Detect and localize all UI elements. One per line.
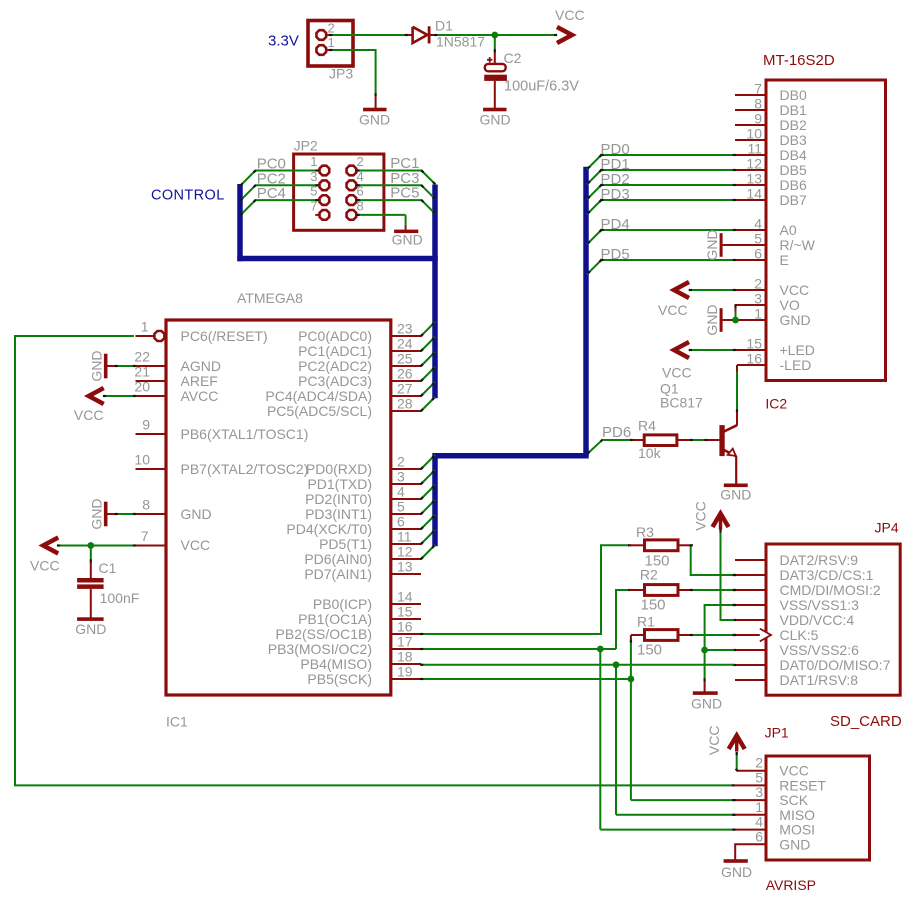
svg-text:9: 9 [142,417,150,433]
svg-text:AREF: AREF [181,373,218,389]
svg-text:E: E [780,252,789,268]
svg-text:PC6(/RESET): PC6(/RESET) [181,328,268,344]
svg-text:1: 1 [310,154,317,169]
svg-text:VDD/VCC:4: VDD/VCC:4 [780,612,855,628]
svg-text:1: 1 [141,319,149,335]
svg-text:VSS/VSS1:3: VSS/VSS1:3 [780,597,860,613]
svg-text:GND: GND [779,836,810,852]
svg-text:GND: GND [359,112,390,128]
svg-text:GND: GND [89,498,105,529]
svg-text:22: 22 [134,349,150,365]
svg-text:VCC: VCC [30,558,60,574]
svg-text:15: 15 [397,604,413,620]
svg-text:GND: GND [704,304,720,335]
svg-text:DB3: DB3 [780,132,807,148]
svg-text:20: 20 [134,379,150,395]
svg-text:PD2(INT0): PD2(INT0) [305,491,372,507]
svg-text:PC4(ADC4/SDA): PC4(ADC4/SDA) [265,388,372,404]
svg-text:4: 4 [755,814,763,830]
svg-text:DB4: DB4 [780,147,807,163]
svg-text:GND: GND [721,864,752,880]
svg-text:DAT3/CD/CS:1: DAT3/CD/CS:1 [780,567,874,583]
svg-text:SD_CARD: SD_CARD [830,713,902,730]
svg-text:PD7(AIN1): PD7(AIN1) [304,566,372,582]
svg-text:PD1(TXD): PD1(TXD) [307,476,372,492]
svg-text:VCC: VCC [779,763,809,779]
svg-text:VCC: VCC [706,726,722,756]
svg-text:8: 8 [142,497,150,513]
svg-text:PC1(ADC1): PC1(ADC1) [298,343,372,359]
svg-text:R3: R3 [636,524,654,540]
svg-text:PD6(AIN0): PD6(AIN0) [304,551,372,567]
svg-text:VCC: VCC [181,537,211,553]
svg-text:GND: GND [89,350,105,381]
svg-text:PC5: PC5 [390,185,419,202]
svg-text:PD4(XCK/T0): PD4(XCK/T0) [286,521,372,537]
svg-text:100nF: 100nF [100,590,140,606]
svg-text:R2: R2 [640,567,658,583]
svg-text:2: 2 [357,154,364,169]
svg-text:VSS/VSS2:6: VSS/VSS2:6 [780,642,860,658]
svg-text:5: 5 [755,769,763,785]
svg-text:VCC: VCC [658,302,688,318]
svg-text:SCK: SCK [779,792,808,808]
svg-text:PD5(T1): PD5(T1) [319,536,372,552]
svg-text:CONTROL: CONTROL [151,188,225,204]
svg-text:25: 25 [397,351,413,367]
svg-text:10: 10 [134,452,150,468]
svg-text:PB3(MOSI/OC2): PB3(MOSI/OC2) [268,641,372,657]
svg-text:19: 19 [397,664,413,680]
svg-text:GND: GND [392,232,423,248]
svg-text:1N5817: 1N5817 [436,34,485,50]
svg-text:VCC: VCC [555,7,585,23]
svg-text:VCC: VCC [693,501,709,531]
svg-text:PD0(RXD): PD0(RXD) [306,461,372,477]
svg-text:PB7(XTAL2/TOSC2): PB7(XTAL2/TOSC2) [181,461,309,477]
svg-text:DB7: DB7 [780,192,807,208]
svg-text:VCC: VCC [662,365,692,381]
svg-text:DB0: DB0 [780,87,807,103]
svg-text:JP2: JP2 [294,138,318,154]
svg-text:PD6: PD6 [602,424,631,441]
svg-text:4: 4 [397,484,405,500]
svg-text:2: 2 [755,755,763,771]
svg-text:10k: 10k [638,445,662,461]
svg-text:PB2(SS/OC1B): PB2(SS/OC1B) [276,626,372,642]
svg-text:DB1: DB1 [780,102,807,118]
svg-text:DB2: DB2 [780,117,807,133]
svg-text:PD4: PD4 [601,216,630,233]
svg-text:C1: C1 [99,560,117,576]
svg-text:1: 1 [755,799,763,815]
svg-text:PB1(OC1A): PB1(OC1A) [298,611,372,627]
svg-text:PC2(ADC2): PC2(ADC2) [298,358,372,374]
svg-text:GND: GND [691,696,722,712]
svg-text:IC2: IC2 [765,396,787,412]
svg-text:JP1: JP1 [765,725,789,741]
svg-text:3.3V: 3.3V [268,33,299,50]
svg-text:PC0(ADC0): PC0(ADC0) [298,328,372,344]
svg-text:DB6: DB6 [780,177,807,193]
svg-text:CLK:5: CLK:5 [780,627,819,643]
svg-text:DAT1/RSV:8: DAT1/RSV:8 [780,672,859,688]
svg-text:VCC: VCC [74,407,104,423]
svg-text:ATMEGA8: ATMEGA8 [237,290,303,306]
svg-text:27: 27 [397,381,413,397]
svg-text:JP3: JP3 [329,66,353,82]
svg-text:7: 7 [141,528,149,544]
svg-text:DAT2/RSV:9: DAT2/RSV:9 [780,552,859,568]
svg-text:3: 3 [397,469,405,485]
svg-text:6: 6 [397,514,405,530]
svg-text:GND: GND [75,621,106,637]
svg-text:13: 13 [397,559,413,575]
svg-text:R1: R1 [637,614,655,630]
svg-text:GND: GND [720,487,751,503]
svg-text:GND: GND [181,506,212,522]
svg-text:MT-16S2D: MT-16S2D [763,52,835,69]
svg-text:RESET: RESET [779,777,826,793]
svg-text:11: 11 [397,529,412,545]
svg-text:12: 12 [397,544,413,560]
svg-text:D1: D1 [435,18,453,34]
svg-text:17: 17 [397,634,413,650]
svg-text:6: 6 [755,828,763,844]
svg-text:BC817: BC817 [660,395,703,411]
svg-text:VO: VO [780,297,800,313]
svg-text:-LED: -LED [780,357,812,373]
svg-text:PC3(ADC3): PC3(ADC3) [298,373,372,389]
svg-text:GND: GND [480,112,511,128]
svg-text:PD3(INT1): PD3(INT1) [305,506,372,522]
svg-text:GND: GND [704,229,720,260]
svg-text:R4: R4 [638,418,656,434]
svg-text:5: 5 [397,499,405,515]
svg-text:PB0(ICP): PB0(ICP) [313,596,372,612]
svg-text:PC4: PC4 [257,185,286,202]
svg-text:IC1: IC1 [166,714,188,730]
svg-text:100uF/6.3V: 100uF/6.3V [504,79,579,95]
svg-text:A0: A0 [780,222,797,238]
svg-text:1: 1 [328,35,335,50]
svg-text:21: 21 [134,364,150,380]
svg-text:PD5: PD5 [601,246,630,263]
svg-text:14: 14 [397,589,413,605]
svg-text:2: 2 [328,21,335,36]
svg-text:AGND: AGND [181,358,221,374]
svg-text:PB6(XTAL1/TOSC1): PB6(XTAL1/TOSC1) [181,426,309,442]
svg-text:3: 3 [755,784,763,800]
svg-text:MISO: MISO [779,807,815,823]
svg-text:R/~W: R/~W [780,237,816,253]
svg-text:PD3: PD3 [601,186,630,203]
svg-text:GND: GND [780,312,811,328]
svg-text:JP4: JP4 [875,520,899,536]
svg-text:24: 24 [397,336,413,352]
svg-text:MOSI: MOSI [779,822,815,838]
svg-text:150: 150 [637,642,662,659]
svg-text:23: 23 [397,321,413,337]
svg-text:+LED: +LED [780,342,815,358]
svg-text:18: 18 [397,649,413,665]
svg-text:PB4(MISO): PB4(MISO) [300,656,372,672]
svg-text:C2: C2 [504,50,522,66]
svg-text:2: 2 [397,454,405,470]
svg-text:PB5(SCK): PB5(SCK) [307,671,372,687]
svg-text:28: 28 [397,396,413,412]
svg-text:CMD/DI/MOSI:2: CMD/DI/MOSI:2 [780,582,881,598]
svg-text:PC5(ADC5/SCL): PC5(ADC5/SCL) [267,403,372,419]
svg-text:16: 16 [397,619,413,635]
svg-text:DAT0/DO/MISO:7: DAT0/DO/MISO:7 [780,657,891,673]
svg-text:DB5: DB5 [780,162,807,178]
svg-text:AVCC: AVCC [181,388,219,404]
svg-text:150: 150 [641,597,666,614]
svg-text:AVRISP: AVRISP [766,877,816,893]
svg-text:26: 26 [397,366,413,382]
svg-text:VCC: VCC [780,282,810,298]
